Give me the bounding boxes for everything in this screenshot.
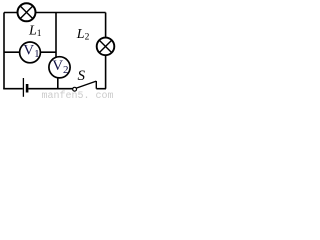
wire bottom left — [3, 88, 23, 90]
wire bottom right — [96, 88, 106, 90]
lamp L1 — [18, 3, 36, 21]
svg-text:S: S — [78, 68, 86, 84]
svg-text:manfen5. com: manfen5. com — [42, 90, 114, 99]
voltmeter V2 — [49, 57, 70, 78]
wire right vertical — [105, 13, 107, 89]
wire V1 leads — [4, 51, 56, 53]
wire middle vertical — [55, 13, 57, 59]
switch S — [73, 81, 97, 91]
wire left vertical — [3, 13, 5, 89]
wire top — [4, 12, 106, 14]
wire V2 bottom lead — [57, 78, 59, 89]
battery cell — [23, 78, 27, 97]
lamp L2 — [97, 38, 115, 56]
wire bottom middle — [28, 88, 72, 90]
voltmeter V1 — [20, 42, 41, 63]
